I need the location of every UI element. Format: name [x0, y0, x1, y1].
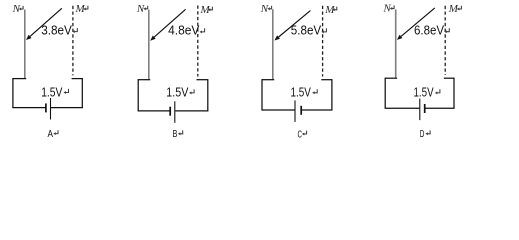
incident light arrow (D): [401, 8, 435, 37]
wire: top-left jog from cathode to left rail (D): [385, 77, 397, 79]
paragraph mark after 3.8eV (A): [74, 28, 77, 32]
paragraph mark after N (A): [21, 6, 24, 9]
paragraph mark after option letter (C): [304, 131, 307, 134]
battery short thick plate (D): [424, 104, 426, 113]
paragraph mark after 5.8eV (C): [323, 28, 326, 32]
svg-text:N: N: [260, 3, 269, 15]
svg-text:1.5V: 1.5V: [291, 85, 312, 100]
svg-text:4.8eV: 4.8eV: [168, 23, 200, 38]
incident light arrow (B): [154, 9, 185, 37]
wire: battery to bottom-right (C): [302, 109, 333, 111]
wire: right rail (B): [207, 79, 209, 111]
paragraph mark after option letter (A): [55, 130, 58, 133]
wire: right rail (C): [331, 79, 333, 110]
paragraph mark after N (C): [269, 6, 272, 9]
battery short thick plate (A): [45, 103, 47, 112]
phototube circuit option B: [136, 3, 213, 140]
paragraph mark after 6.8eV (D): [446, 28, 449, 32]
battery long thin plate (D): [419, 99, 421, 121]
four phototube / photoelectric-effect option circuits A-D: [0, 0, 519, 141]
incident light arrow (A): [30, 8, 62, 36]
wire: right rail (A): [81, 78, 83, 108]
svg-text:5.8eV: 5.8eV: [291, 23, 322, 38]
wire: left rail (D): [384, 78, 386, 109]
wire: left rail (A): [12, 78, 14, 108]
battery long thin plate (C): [294, 100, 296, 122]
wire: bottom-left to battery (B): [138, 110, 170, 112]
wire: bottom-left to battery (A): [12, 107, 45, 109]
svg-text:1.5V: 1.5V: [41, 84, 62, 99]
paragraph mark after 1.5V (B): [191, 89, 194, 93]
paragraph mark after 1.5V (A): [65, 89, 68, 93]
battery long thin plate (B): [174, 101, 176, 123]
wire: top-right jog from anode to right rail (B): [197, 79, 208, 81]
anode plate M dashed (A): [72, 6, 74, 76]
svg-text:D: D: [420, 129, 425, 140]
paragraph mark after N (D): [392, 5, 395, 8]
svg-text:1.5V: 1.5V: [414, 85, 434, 100]
paragraph mark after option letter (D): [427, 130, 430, 133]
anode plate M dashed (C): [322, 6, 324, 77]
svg-text:A: A: [48, 129, 54, 140]
battery long thin plate (A): [50, 98, 52, 120]
cathode plate N (C): [272, 9, 274, 80]
phototube circuit option A: [12, 3, 88, 140]
svg-text:C: C: [298, 129, 303, 140]
svg-text:3.8eV: 3.8eV: [41, 22, 72, 37]
svg-text:1.5V: 1.5V: [166, 85, 188, 100]
wire: left rail (B): [137, 79, 139, 111]
wire: battery to bottom-right (B): [175, 110, 208, 112]
paragraph mark after 1.5V (C): [314, 89, 317, 93]
wire: top-left jog from cathode to left rail (A): [13, 78, 26, 80]
paragraph mark after M (A): [85, 6, 88, 9]
wire: bottom-left to battery (C): [261, 109, 294, 111]
incident light arrow (C): [279, 11, 311, 37]
svg-text:B: B: [173, 129, 178, 140]
cathode plate N (D): [395, 9, 397, 78]
wire: top-right jog from anode to right rail (C): [321, 79, 332, 81]
wire: top-right jog from anode to right rail (A): [72, 78, 83, 80]
paragraph mark after 1.5V (D): [437, 89, 440, 93]
wire: right rail (D): [453, 78, 455, 109]
paragraph mark after M (D): [459, 6, 462, 9]
battery short thick plate (C): [300, 106, 302, 115]
paragraph mark after 4.8eV (B): [201, 28, 204, 32]
paragraph mark after M (C): [334, 7, 337, 10]
wire: battery to bottom-right (D): [425, 107, 454, 109]
anode plate M dashed (B): [197, 6, 199, 77]
phototube circuit option D: [383, 3, 462, 141]
paragraph mark after N (B): [145, 6, 148, 9]
battery short thick plate (B): [169, 107, 171, 116]
anode plate M dashed (D): [444, 6, 446, 75]
wire: top-left jog from cathode to left rail (B): [138, 79, 150, 81]
phototube circuit option C: [260, 3, 337, 141]
wire: left rail (C): [261, 79, 263, 110]
wire: battery to bottom-right (A): [51, 107, 83, 109]
cathode plate N (A): [24, 10, 26, 79]
paragraph mark after M (B): [210, 7, 213, 10]
wire: bottom-left to battery (D): [385, 107, 420, 109]
svg-text:6.8eV: 6.8eV: [414, 23, 444, 38]
paragraph mark after option letter (B): [180, 130, 183, 133]
wire: top-left jog from cathode to left rail (C): [262, 79, 274, 81]
wire: top-right jog from anode to right rail (D): [444, 77, 454, 79]
cathode plate N (B): [148, 10, 150, 80]
